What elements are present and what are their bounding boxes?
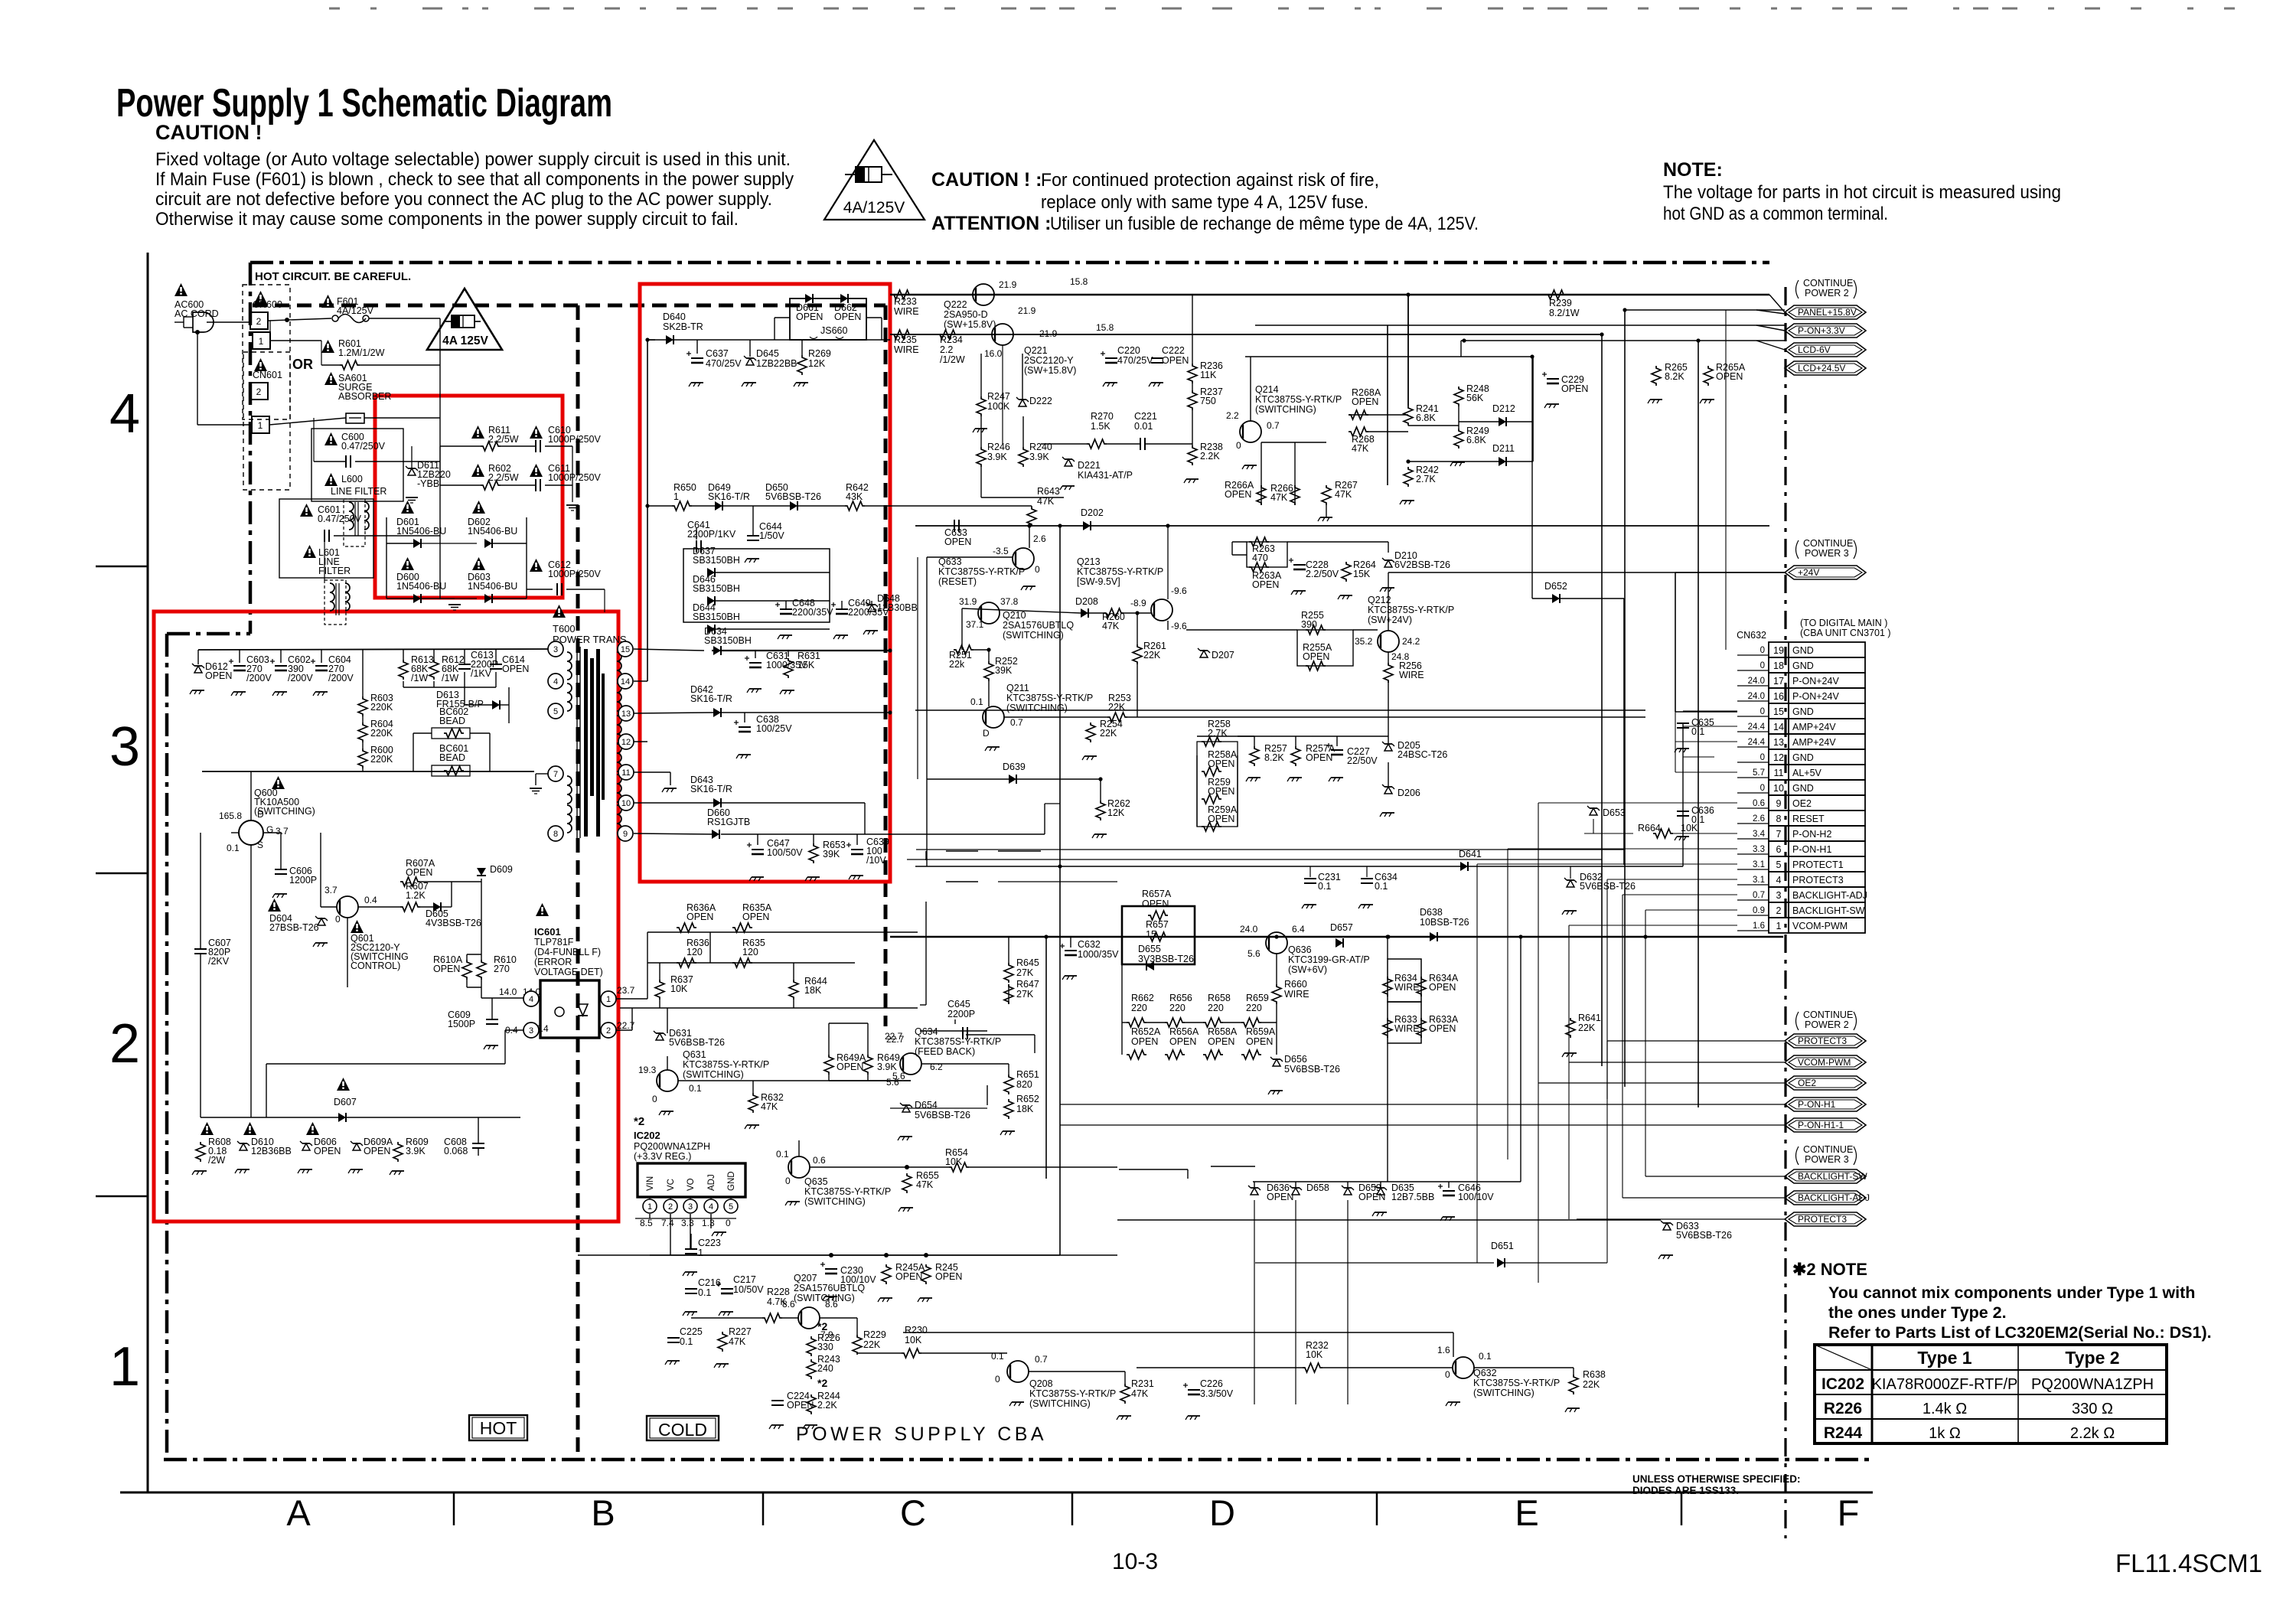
svg-text:330: 330 [817,1342,833,1352]
svg-text:5V6BSB-T26: 5V6BSB-T26 [1676,1230,1732,1241]
svg-text:39K: 39K [823,849,840,859]
svg-text:R656: R656 [1169,993,1192,1003]
flag VCOM-PWM [1785,1055,1866,1069]
svg-text:OPEN: OPEN [1252,579,1279,590]
svg-text:WIRE: WIRE [1394,982,1420,993]
wires q634 [921,1063,1009,1065]
svg-text:10/50V: 10/50V [733,1284,764,1295]
svg-text:LCD+24.5V: LCD+24.5V [1798,363,1845,373]
svg-text:0.1: 0.1 [1479,1351,1492,1362]
svg-text:OPEN: OPEN [1131,1036,1158,1047]
svg-text:1: 1 [698,1248,703,1258]
svg-text:hot GND as a common terminal.: hot GND as a common terminal. [1663,204,1888,224]
transformer pin 4 [548,674,563,689]
svg-text:10-3: 10-3 [1112,1549,1158,1574]
resistor R657 block wires [1121,937,1123,1023]
svg-text:SK16-T/R: SK16-T/R [708,491,750,502]
svg-text:47K: 47K [1102,621,1120,631]
transistor Q635 [788,1156,810,1178]
svg-text:47K: 47K [1270,492,1288,503]
svg-text:4: 4 [1776,875,1782,886]
resistor R601 [321,340,334,353]
wire secondary buses [647,339,655,341]
svg-text:Q214: Q214 [1255,384,1279,395]
svg-text:(SWITCHING): (SWITCHING) [1473,1388,1534,1398]
svg-text:R231: R231 [1131,1378,1154,1389]
svg-text:GND: GND [1792,783,1814,794]
svg-text:4V3BSB-T26: 4V3BSB-T26 [426,918,481,928]
svg-text:-9.6: -9.6 [1171,585,1187,596]
svg-text:10K: 10K [945,1156,963,1167]
svg-text:BEAD: BEAD [439,752,465,763]
diode D600 [401,557,414,570]
diode D607 [337,1078,350,1091]
svg-text:5: 5 [553,707,558,716]
primary bottom bus [201,1117,520,1118]
svg-text:Q222: Q222 [944,299,967,310]
svg-text:1N5406-BU: 1N5406-BU [396,526,446,537]
svg-text:DIODES ARE 1SS133.: DIODES ARE 1SS133. [1632,1485,1739,1496]
svg-text:KTC3875S-Y-RTK/P: KTC3875S-Y-RTK/P [938,566,1025,577]
svg-text:OPEN: OPEN [1169,1036,1196,1047]
svg-text:CONTINUE: CONTINUE [1803,1144,1853,1155]
svg-text:0.47/250V: 0.47/250V [341,441,386,452]
svg-text:IC202: IC202 [634,1130,660,1141]
svg-text:*2: *2 [817,1377,827,1389]
fuse F601 [321,295,334,308]
svg-text:Q211: Q211 [1006,683,1029,693]
svg-text:/200V: /200V [328,673,354,683]
svg-text:Power Supply 1 Schematic Diagr: Power Supply 1 Schematic Diagram [116,81,612,126]
svg-text:15.8: 15.8 [1070,276,1088,287]
svg-text:OPEN: OPEN [433,964,460,974]
svg-text:21.9: 21.9 [1039,328,1058,339]
svg-text:0.1: 0.1 [970,696,983,707]
mid wires [927,556,1013,558]
svg-text:2: 2 [1776,905,1782,916]
diode D606 [306,1122,319,1135]
svg-text:6.8K: 6.8K [1466,435,1486,445]
svg-text:1.5K: 1.5K [1091,421,1110,432]
svg-text:Q221: Q221 [1024,345,1048,356]
svg-text:1N5406-BU: 1N5406-BU [396,581,446,592]
svg-text:VCOM-PWM: VCOM-PWM [1798,1057,1851,1068]
svg-text:C220: C220 [1117,345,1140,356]
svg-text:SK16-T/R: SK16-T/R [690,693,732,704]
transformer pin 9 [618,826,633,841]
svg-text:Q208: Q208 [1029,1378,1053,1389]
svg-text:220: 220 [1208,1003,1224,1013]
svg-text:0.47/250V: 0.47/250V [318,514,362,524]
svg-text:37.8: 37.8 [1000,596,1019,607]
svg-text:TLP781F: TLP781F [534,937,574,948]
svg-text:750: 750 [1200,396,1216,406]
svg-text:R664: R664 [1638,823,1661,833]
svg-text:3.3/50V: 3.3/50V [1200,1388,1234,1399]
svg-text:R240: R240 [1029,442,1052,452]
wire secondary top [697,339,890,341]
svg-text:circuit are not defective befo: circuit are not defective before you con… [155,189,772,210]
svg-text:22K: 22K [1583,1379,1600,1390]
svg-text:1: 1 [258,420,263,431]
svg-text:C216: C216 [698,1277,721,1288]
transformer pin 13 [618,706,634,721]
svg-text:CONTINUE: CONTINUE [1803,278,1853,289]
svg-text:D607: D607 [334,1097,357,1107]
svg-text:✱2 NOTE: ✱2 NOTE [1792,1260,1867,1279]
svg-text:47K: 47K [916,1179,934,1190]
svg-text:replace only with same type 4: replace only with same type 4 A, 125V fu… [1041,192,1368,213]
svg-text:OPEN: OPEN [1561,383,1588,394]
svg-text:/1W: /1W [411,673,428,683]
svg-text:22k: 22k [949,659,965,670]
transformer pin 11 [618,765,634,780]
svg-text:8.2K: 8.2K [1264,752,1284,763]
transformer pin 3 [548,641,563,657]
svg-text:2SA950-D: 2SA950-D [944,309,988,320]
svg-text:KTC3875S-Y-RTK/P: KTC3875S-Y-RTK/P [1029,1388,1116,1399]
svg-text:24.2: 24.2 [1402,636,1420,647]
svg-text:C222: C222 [1162,345,1185,356]
primary mid bus [202,771,534,772]
svg-text:6: 6 [1776,844,1782,855]
svg-text:Q634: Q634 [915,1026,938,1037]
svg-text:C645: C645 [947,999,970,1009]
svg-text:OPEN: OPEN [1716,371,1743,382]
svg-text:0.1: 0.1 [689,1083,702,1094]
svg-text:T600: T600 [553,623,576,634]
svg-text:(SWITCHING): (SWITCHING) [683,1069,744,1080]
svg-text:220K: 220K [370,728,393,739]
svg-text:(FEED BACK): (FEED BACK) [915,1046,975,1057]
svg-text:14: 14 [1773,722,1784,732]
svg-text:D645: D645 [756,348,779,359]
svg-text:VOLTAGE DET): VOLTAGE DET) [534,967,603,977]
svg-text:[SW-9.5V]: [SW-9.5V] [1077,576,1120,587]
svg-text:OPEN: OPEN [1352,396,1378,407]
svg-text:15: 15 [621,645,630,654]
svg-text:FL11.4SCM1: FL11.4SCM1 [2115,1549,2262,1577]
svg-text:R641: R641 [1578,1013,1601,1023]
svg-text:1.2M/1/2W: 1.2M/1/2W [338,347,385,358]
svg-text:SB3150BH: SB3150BH [693,555,740,566]
svg-text:240: 240 [817,1363,833,1374]
svg-text:KTC3875S-Y-RTK/P: KTC3875S-Y-RTK/P [1006,693,1093,703]
svg-text:P-ON-H1: P-ON-H1 [1792,844,1831,855]
svg-text:KIA431-AT/P: KIA431-AT/P [1078,470,1133,481]
svg-text:3.9K: 3.9K [877,1062,897,1072]
svg-text:Q212: Q212 [1368,595,1391,605]
svg-text:8.6: 8.6 [782,1299,795,1310]
svg-text:BACKLIGHT-ADJ: BACKLIGHT-ADJ [1792,890,1867,901]
svg-text:/1W: /1W [442,673,458,683]
wires r649 [829,1023,868,1024]
svg-text:220K: 220K [370,702,393,713]
svg-text:22.7: 22.7 [885,1031,903,1042]
svg-text:BEAD: BEAD [439,716,465,726]
svg-text:RESET: RESET [1792,814,1825,824]
svg-text:0.01: 0.01 [1134,421,1153,432]
svg-text:CAUTION ! :: CAUTION ! : [931,169,1042,191]
svg-text:1/50V: 1/50V [759,530,784,541]
svg-text:0.1: 0.1 [776,1149,789,1160]
svg-text:5: 5 [729,1202,733,1212]
wire parallels center [916,849,1624,850]
svg-text:D222: D222 [1029,396,1052,406]
svg-text:820: 820 [1016,1079,1032,1090]
svg-text:0.1: 0.1 [680,1336,693,1347]
ic202 area wires [649,1214,651,1218]
svg-text:2: 2 [668,1202,673,1212]
svg-text:1.6: 1.6 [1437,1345,1450,1355]
svg-text:2.2K: 2.2K [1200,451,1220,462]
svg-text:For continued protection again: For continued protection against risk of… [1041,170,1379,191]
svg-text:2: 2 [109,1013,140,1075]
connector CN632 pin table [1769,642,1789,657]
svg-text:19: 19 [1773,645,1784,656]
svg-text:D221: D221 [1078,460,1101,471]
svg-text:P-ON+3.3V: P-ON+3.3V [1798,325,1845,336]
svg-text:R659: R659 [1246,993,1269,1003]
transistor Q632 [1453,1357,1474,1378]
resistor R611 [471,426,484,439]
svg-text:5.7: 5.7 [1753,768,1765,778]
capacitor C600 [325,432,338,445]
svg-text:OE2: OE2 [1798,1078,1816,1088]
svg-text:120: 120 [742,947,758,957]
svg-text:4: 4 [109,383,140,445]
svg-text:PANEL+15.8V: PANEL+15.8V [1798,307,1857,318]
svg-text:22K: 22K [1143,650,1161,660]
svg-text:R647: R647 [1016,979,1039,990]
svg-text:Type 1: Type 1 [1917,1348,1971,1368]
svg-text:0: 0 [1035,564,1040,575]
wire bus 1544 [1253,1181,1521,1182]
svg-text:R227: R227 [729,1326,752,1337]
svg-text:PROTECT3: PROTECT3 [1792,875,1844,886]
svg-text:22K: 22K [863,1339,881,1350]
svg-text:OPEN: OPEN [1208,758,1234,769]
wire protect3 lines [1607,1040,1785,1042]
svg-text:VC: VC [667,1179,676,1191]
svg-text:5V6BSB-T26: 5V6BSB-T26 [669,1037,725,1048]
svg-text:0: 0 [652,1094,657,1104]
svg-text:14: 14 [621,677,630,687]
svg-text:17: 17 [1773,676,1784,687]
svg-text:100/50V: 100/50V [767,847,803,858]
ac area wires [207,321,250,323]
svg-text:Type 2: Type 2 [2065,1348,2119,1368]
svg-text:OPEN: OPEN [834,311,861,322]
flag LCD+24.5V [1785,361,1866,375]
svg-text:KTC3875S-Y-RTK/P: KTC3875S-Y-RTK/P [683,1059,769,1070]
svg-text:OPEN: OPEN [837,1062,863,1072]
svg-text:12B7.5BB: 12B7.5BB [1391,1192,1434,1202]
svg-text:18K: 18K [1016,1104,1034,1114]
junction dots [1058,864,1062,868]
svg-text:OPEN: OPEN [1429,982,1456,993]
svg-text:8.2/1W: 8.2/1W [1549,308,1580,318]
svg-text:(CBA UNIT CN3701 ): (CBA UNIT CN3701 ) [1800,628,1891,638]
svg-text:10K: 10K [670,983,688,994]
svg-text:1N5406-BU: 1N5406-BU [468,581,517,592]
svg-text:KTC3875S-Y-RTK/P: KTC3875S-Y-RTK/P [1255,394,1342,405]
svg-text:6.4: 6.4 [1292,924,1305,934]
diode D602 [472,501,485,514]
capacitor C610 [530,426,543,439]
svg-text:2.2/50V: 2.2/50V [1306,569,1339,579]
svg-text:D640: D640 [663,311,686,322]
svg-text:7: 7 [553,770,558,779]
svg-text:8.6: 8.6 [825,1299,838,1310]
svg-text:OPEN: OPEN [364,1146,390,1156]
svg-text:3.9K: 3.9K [987,452,1007,462]
svg-text:CN632: CN632 [1737,630,1766,641]
svg-text:Q207: Q207 [794,1273,817,1283]
svg-text:23.7: 23.7 [617,985,635,996]
svg-text:KTC3875S-Y-RTK/P: KTC3875S-Y-RTK/P [915,1036,1001,1047]
optocoupler IC601 [536,903,549,916]
svg-text:1: 1 [673,491,679,502]
resistor R608 [201,1122,214,1135]
line filter L600 [311,429,403,501]
svg-text:AL+5V: AL+5V [1792,768,1822,778]
svg-text:D: D [1209,1492,1235,1533]
svg-text:35.2: 35.2 [1355,636,1373,647]
svg-text:0: 0 [995,1374,1000,1385]
svg-text:8.5: 8.5 [640,1218,653,1228]
wire r613 block [403,681,404,687]
red highlight box 1 [375,396,563,598]
svg-text:6V2BSB-T26: 6V2BSB-T26 [1394,559,1450,570]
svg-text:D609: D609 [490,864,513,875]
svg-text:OPEN: OPEN [935,1271,962,1282]
svg-text:0: 0 [1760,753,1765,762]
wire verticals from rails to bottom area [1059,866,1061,1255]
svg-text:3: 3 [1776,890,1782,901]
svg-text:Q633: Q633 [938,556,962,567]
svg-text:CN601: CN601 [253,370,282,380]
svg-text:P-ON+24V: P-ON+24V [1792,691,1839,702]
svg-text:470/25V: 470/25V [1117,355,1153,366]
svg-text:Q631: Q631 [683,1049,706,1060]
svg-text:OPEN: OPEN [687,912,713,922]
svg-text:12K: 12K [1107,807,1125,818]
ground pin 7 [536,773,548,775]
transistor Q208 [1007,1361,1029,1382]
flag BACKLIGHT-ADJ [1785,1191,1866,1205]
hot region inner dashed boundary [253,304,885,308]
svg-text:(SWITCHING): (SWITCHING) [1003,630,1064,641]
primary top bus [198,649,548,650]
svg-text:OPEN: OPEN [205,670,232,681]
svg-text:1000/35V: 1000/35V [1078,949,1119,960]
svg-text:R645: R645 [1016,957,1039,968]
svg-text:C637: C637 [706,348,729,359]
svg-text:31.9: 31.9 [959,596,977,607]
wire mesh misc verticals lower [1476,864,1478,1263]
svg-text:21.9: 21.9 [1018,305,1036,316]
svg-text:0.1: 0.1 [1375,881,1388,892]
svg-text:220: 220 [1169,1003,1186,1013]
svg-text:24.0: 24.0 [1748,677,1765,686]
svg-text:(SW+6V): (SW+6V) [1288,964,1327,975]
svg-text:3.9K: 3.9K [1029,452,1049,462]
capacitor C611 [530,464,543,477]
svg-text:HOT CIRCUIT. BE CAREFUL.: HOT CIRCUIT. BE CAREFUL. [255,270,411,283]
svg-text:IC601: IC601 [534,926,561,938]
svg-text:KTC3875S-Y-RTK/P: KTC3875S-Y-RTK/P [1368,605,1454,615]
svg-text:R651: R651 [1016,1069,1039,1080]
svg-text:D654: D654 [915,1100,938,1111]
capacitor C601 [300,504,313,517]
svg-text:24.4: 24.4 [1748,738,1766,747]
flag PROTECT3 low [1785,1212,1866,1226]
svg-text:CN600: CN600 [253,299,282,310]
svg-text:2.6: 2.6 [1033,533,1046,544]
svg-text:2: 2 [606,1026,611,1036]
svg-text:4: 4 [709,1202,713,1212]
svg-text:0.7: 0.7 [1753,891,1765,900]
svg-text:WIRE: WIRE [894,306,919,317]
flag PROTECT3 mid [1785,1034,1866,1048]
svg-text:270: 270 [494,964,510,974]
transistor Q631 [657,1070,678,1091]
svg-text:1: 1 [606,995,611,1004]
svg-text:12K: 12K [808,358,826,369]
svg-text:120: 120 [687,947,703,957]
svg-text:GND: GND [1792,645,1814,656]
flag P-ON-H1 [1785,1098,1866,1111]
frame bottom border [120,1492,1873,1494]
svg-text:Q635: Q635 [804,1176,828,1187]
svg-text:0.4: 0.4 [364,895,377,905]
svg-text:0.1: 0.1 [227,843,240,853]
svg-text:470: 470 [1252,553,1268,563]
svg-text:PQ200WNA1ZPH: PQ200WNA1ZPH [2031,1376,2154,1393]
svg-text:10: 10 [1773,783,1784,794]
svg-text:2.2/5W: 2.2/5W [488,472,519,483]
svg-text:3: 3 [109,716,140,778]
svg-text:VIN: VIN [646,1176,655,1191]
svg-text:ADJ: ADJ [707,1174,716,1191]
wire flag long horizontals [1060,1104,1508,1105]
svg-text:OPEN: OPEN [1225,489,1251,500]
zener D604 [268,899,281,912]
svg-text:POWER 3: POWER 3 [1805,1154,1849,1165]
svg-text:0: 0 [785,1176,791,1186]
wires r636 cluster [647,931,918,933]
svg-text:/1KV: /1KV [471,668,492,679]
svg-text:OPEN: OPEN [1306,752,1332,763]
svg-text:47K: 47K [1352,443,1369,454]
svg-text:5V6BSB-T26: 5V6BSB-T26 [1284,1064,1340,1075]
svg-text:OPEN: OPEN [1246,1036,1273,1047]
svg-text:1: 1 [109,1336,140,1398]
svg-text:POWER 2: POWER 2 [1805,1019,1849,1030]
svg-text:2200P: 2200P [947,1009,975,1019]
svg-text:0: 0 [726,1218,731,1228]
svg-text:18K: 18K [804,985,822,996]
svg-text:GND: GND [1792,752,1814,763]
svg-text:C223: C223 [698,1238,721,1248]
svg-text:0.7: 0.7 [1035,1354,1048,1365]
svg-text:2.6: 2.6 [1753,814,1765,824]
svg-text:3.4: 3.4 [1753,830,1766,839]
svg-text:KTC3875S-Y-RTK/P: KTC3875S-Y-RTK/P [804,1186,891,1197]
flag OE2 [1785,1076,1866,1090]
svg-text:R233: R233 [894,296,917,307]
